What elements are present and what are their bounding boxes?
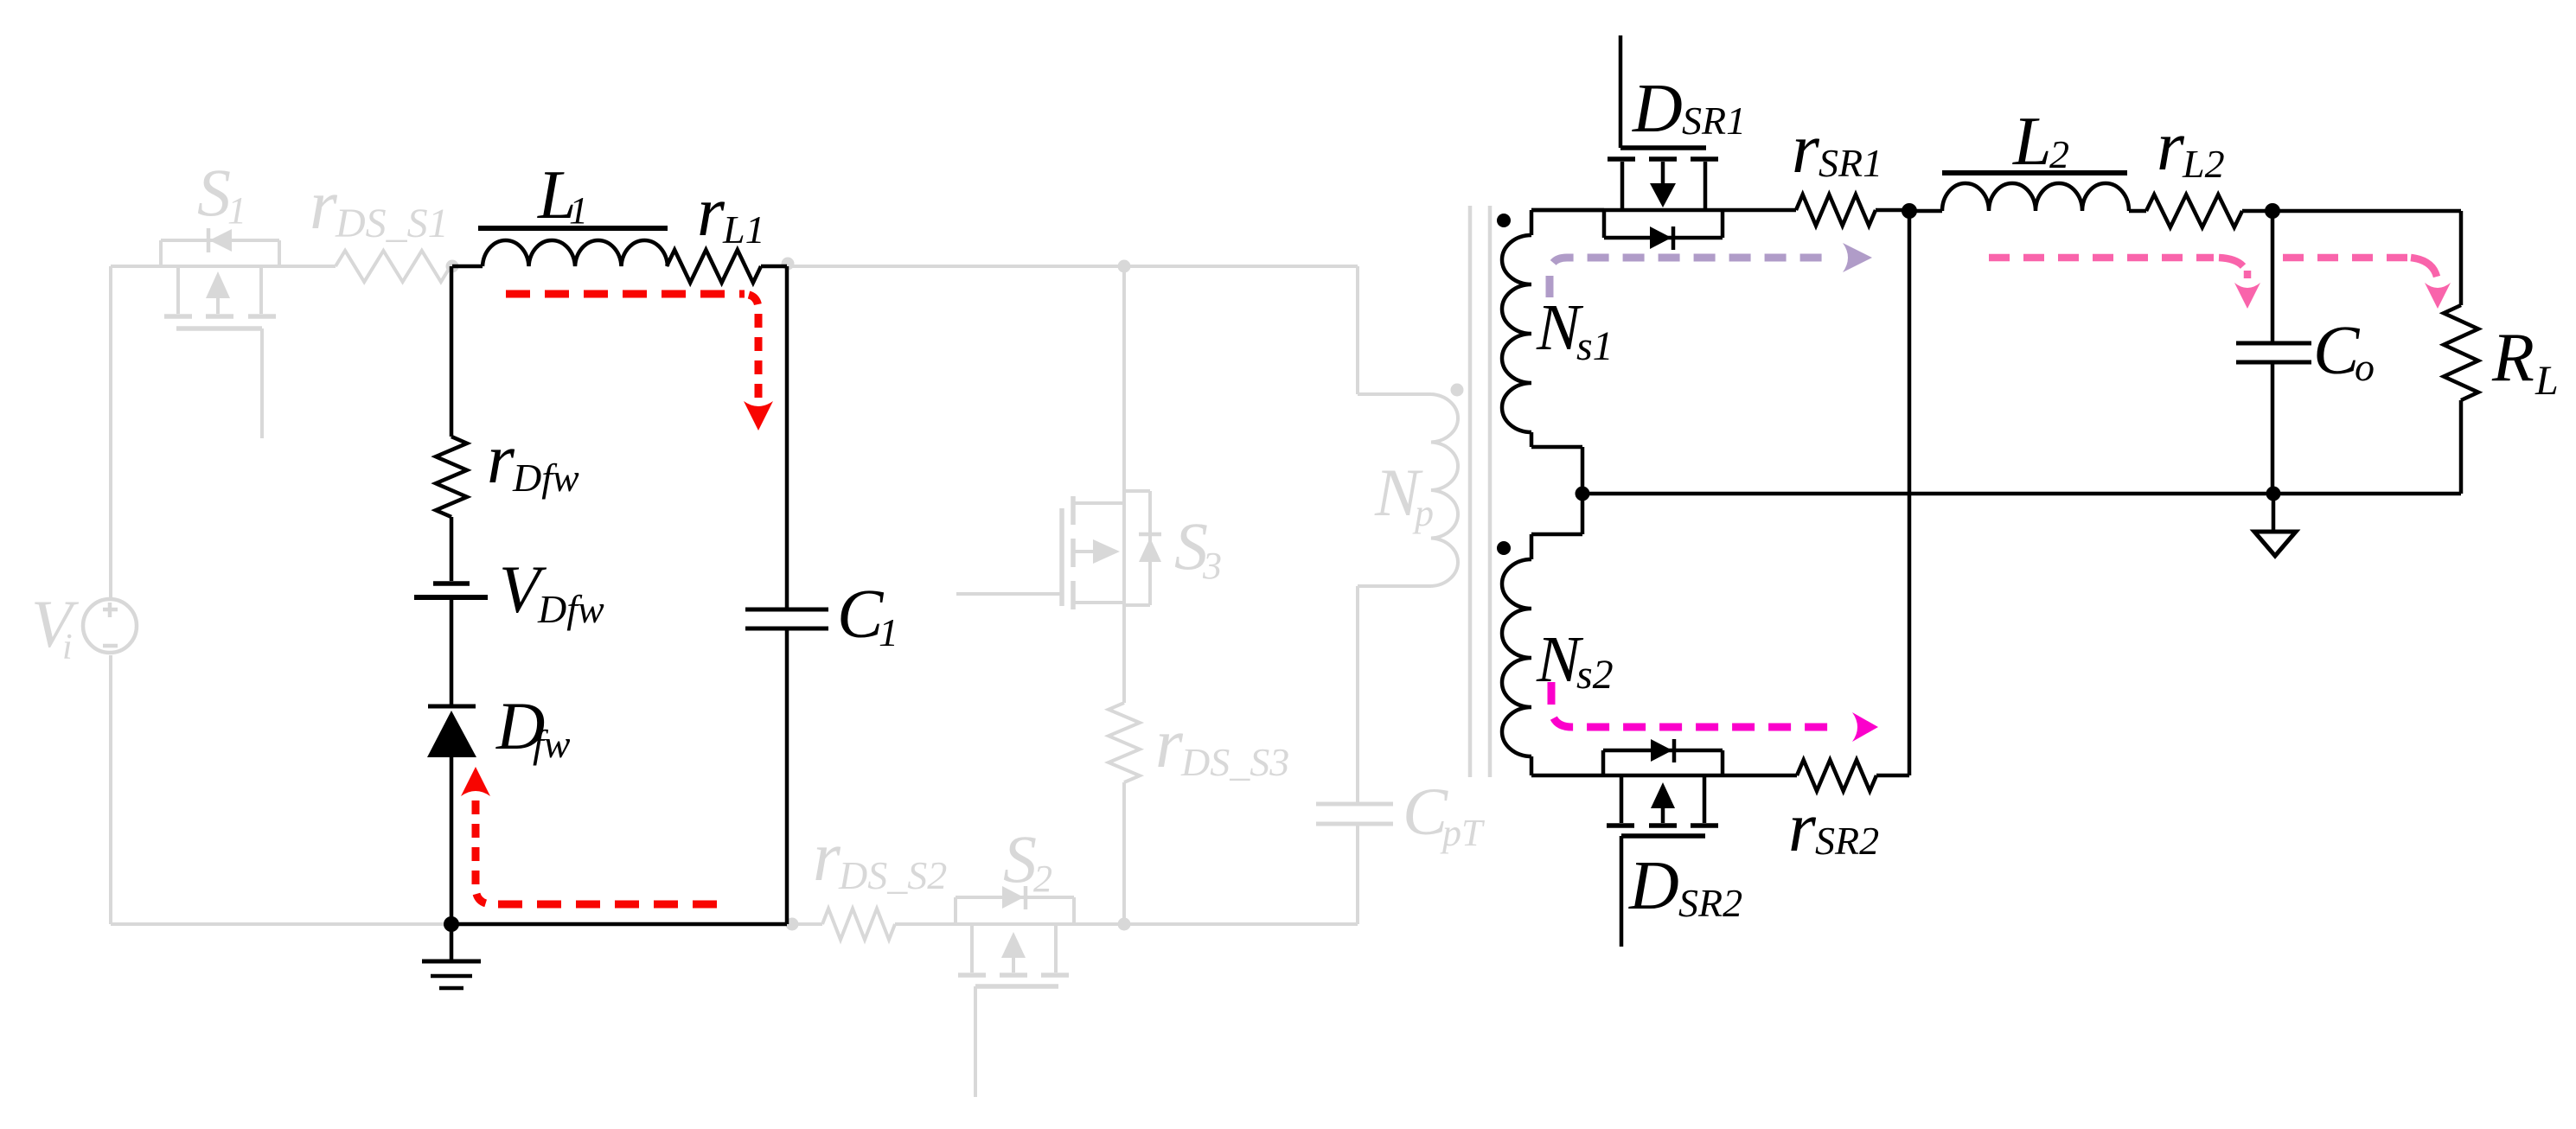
svg-text:r: r bbox=[813, 817, 841, 896]
svg-text:2: 2 bbox=[1033, 858, 1052, 900]
svg-text:SR1: SR1 bbox=[1682, 99, 1746, 143]
svg-text:1: 1 bbox=[569, 189, 588, 232]
svg-text:r: r bbox=[310, 165, 338, 244]
svg-text:1: 1 bbox=[879, 610, 898, 654]
svg-text:s1: s1 bbox=[1576, 323, 1614, 369]
svg-text:L: L bbox=[2012, 104, 2052, 180]
svg-text:L: L bbox=[2534, 358, 2559, 404]
svg-text:s2: s2 bbox=[1576, 652, 1614, 698]
svg-text:S: S bbox=[1003, 821, 1037, 896]
svg-text:D: D bbox=[1628, 848, 1679, 924]
svg-text:Dfw: Dfw bbox=[512, 456, 579, 500]
svg-text:L1: L1 bbox=[722, 207, 765, 252]
svg-text:r: r bbox=[1155, 704, 1184, 782]
svg-text:D: D bbox=[1632, 71, 1683, 147]
svg-text:SR2: SR2 bbox=[1815, 819, 1879, 863]
svg-text:DS_S2: DS_S2 bbox=[838, 853, 947, 897]
svg-text:o: o bbox=[2355, 345, 2375, 389]
svg-text:2: 2 bbox=[2049, 132, 2069, 176]
svg-text:Dfw: Dfw bbox=[537, 587, 604, 631]
svg-text:r: r bbox=[1788, 788, 1817, 866]
svg-text:C: C bbox=[2313, 313, 2361, 389]
svg-text:DS_S1: DS_S1 bbox=[335, 201, 449, 246]
svg-text:S: S bbox=[197, 155, 231, 230]
svg-text:p: p bbox=[1412, 492, 1434, 534]
svg-text:C: C bbox=[837, 577, 885, 653]
svg-text:DS_S3: DS_S3 bbox=[1180, 740, 1289, 784]
svg-text:SR2: SR2 bbox=[1678, 881, 1742, 925]
svg-text:fw: fw bbox=[533, 722, 571, 766]
svg-text:3: 3 bbox=[1202, 545, 1222, 587]
svg-text:R: R bbox=[2491, 320, 2534, 396]
svg-text:SR1: SR1 bbox=[1819, 141, 1882, 185]
svg-text:r: r bbox=[697, 172, 725, 251]
svg-text:L2: L2 bbox=[2182, 142, 2225, 186]
svg-text:i: i bbox=[62, 628, 73, 667]
svg-text:r: r bbox=[2157, 106, 2185, 185]
svg-text:1: 1 bbox=[227, 189, 246, 232]
svg-text:r: r bbox=[487, 419, 515, 498]
svg-text:pT: pT bbox=[1440, 812, 1486, 854]
svg-text:r: r bbox=[1792, 109, 1820, 188]
